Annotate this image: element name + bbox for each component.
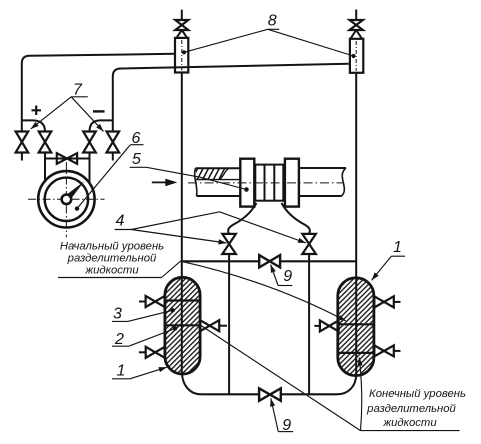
gauge U1 outer circle (differential manometer, item 6) — [38, 171, 94, 227]
label 3 leader — [128, 310, 173, 321]
label 7 leader left — [31, 97, 71, 129]
valve V3 (minus shutoff valve) — [83, 132, 96, 153]
valve 4 right (tap shutoff) — [302, 234, 316, 254]
right vessel left valve stem — [314, 325, 320, 327]
svg-text:3: 3 — [113, 306, 122, 323]
label 7 underline — [71, 96, 88, 98]
separator vessel 1 (right) body — [338, 278, 374, 376]
wire below valve 4 left down to bottom manifold — [228, 254, 230, 394]
svg-text:7: 7 — [73, 82, 83, 99]
wire plus top corner and horizontal to valve 8 left — [22, 54, 175, 64]
valve 8 right: body — [350, 39, 363, 73]
wire stem below V3 — [89, 153, 91, 159]
left vessel lower division line — [165, 324, 200, 326]
label 1 right underline — [391, 255, 405, 257]
valve 8 right: stem — [355, 10, 357, 21]
wire branch to valve V2 — [22, 120, 45, 131]
wire upper equalizing manifold — [182, 260, 356, 262]
svg-text:9: 9 — [283, 268, 292, 285]
minus sign — [93, 110, 105, 112]
left vessel right valve — [200, 320, 219, 331]
dot label 3 — [171, 308, 175, 312]
label 8 leader to right valve — [268, 29, 354, 56]
pipe wall inner line — [196, 179, 240, 181]
final level note underline — [361, 430, 460, 432]
label 4 underline — [115, 229, 132, 231]
left vessel lower-left valve — [146, 347, 165, 358]
label 4 leader to right tap valve — [131, 212, 306, 243]
label 1 right leader — [372, 256, 392, 280]
valve 8 left: body centerline — [181, 40, 183, 71]
label 9 lower underline — [278, 431, 293, 433]
orifice left flange — [240, 159, 254, 207]
plus sign — [32, 106, 42, 116]
pipe right break edge — [342, 168, 347, 196]
valve 8 left: body — [175, 38, 188, 73]
valve 4 left (tap shutoff) — [222, 234, 236, 254]
svg-text:жидкости: жидкости — [382, 417, 437, 429]
initial level note underline — [58, 277, 162, 279]
dots and arrowheads — [31, 50, 379, 407]
svg-text:Конечный уровень: Конечный уровень — [369, 388, 466, 400]
valve 8 right: body centerline — [355, 41, 357, 71]
valve 8 right: bowtie — [350, 20, 363, 30]
svg-text:9: 9 — [282, 417, 291, 434]
gauge crosshair horizontal — [28, 198, 105, 200]
label 6 leader to gauge — [77, 145, 130, 209]
arrowhead label 7 left — [31, 122, 39, 129]
valve 8 right: cone — [350, 30, 362, 39]
pipe wall band boundary — [220, 168, 229, 179]
left vessel lower-left valve stem — [139, 351, 146, 353]
wire left vessel bottom outlet curve — [182, 374, 201, 395]
label 4 leader to left tap valve — [131, 230, 226, 244]
arrowhead initial level — [338, 315, 346, 321]
arrowhead label 7 right — [96, 124, 103, 132]
label 1 left leader — [130, 367, 167, 379]
label 1 left underline — [112, 378, 130, 380]
left vessel upper division line — [165, 299, 200, 301]
right vessel upper division line — [338, 323, 374, 325]
svg-text:8: 8 — [268, 13, 277, 30]
label 9 lower leader — [271, 398, 279, 431]
gauge hub — [62, 195, 72, 205]
wire bracket right down to gauge — [89, 159, 91, 185]
dot on valve 8 right — [351, 54, 355, 58]
gauge crosshair vertical — [65, 162, 67, 237]
label 3 underline — [112, 320, 128, 322]
arrowhead label 9 lower — [270, 398, 275, 406]
orifice plate stack — [255, 165, 283, 201]
separator vessel 1 (left) body — [165, 277, 200, 374]
gauge inner circle — [45, 178, 88, 221]
arrowhead label 9 upper — [271, 265, 276, 273]
wire bracket left down to gauge — [44, 159, 46, 183]
wire right impulse line down to right vessel — [355, 73, 357, 375]
wire plus impulse vertical (left) — [21, 64, 23, 132]
arrowhead label 4 right — [298, 238, 306, 243]
pipe top edge left — [196, 167, 241, 169]
orifice plate divider 1 — [264, 165, 266, 201]
svg-text:4: 4 — [116, 213, 125, 230]
wire right orifice tap curve — [282, 203, 310, 234]
pipe left break edge — [195, 168, 197, 196]
wire bottom manifold — [201, 393, 337, 395]
flow arrow shaft — [152, 181, 166, 183]
left vessel upper-left valve stem — [139, 301, 146, 303]
arrowhead final level — [358, 358, 363, 366]
valve 9 lower (blow-down) — [259, 388, 281, 401]
wire stem below V2 — [44, 153, 46, 159]
wire stem below V4 — [112, 153, 114, 161]
wire left impulse line down to left vessel — [181, 73, 183, 374]
svg-text:разделительной: разделительной — [67, 252, 157, 264]
label 2 leader — [129, 329, 175, 347]
wire below valve 4 right down to bottom manifold — [308, 254, 310, 394]
arrowhead label 1 left — [158, 367, 166, 372]
svg-text:жидкости: жидкости — [84, 265, 139, 277]
right vessel upper-right valve — [374, 296, 394, 307]
dot orifice (label 5) — [244, 187, 249, 192]
valve V2 (plus shutoff valve) — [39, 132, 52, 153]
final level leader to right vessel division — [359, 358, 361, 431]
label 2 underline — [112, 345, 129, 347]
valve 9 upper (equalizing) — [259, 255, 280, 267]
valve 8 left: bowtie — [175, 20, 188, 30]
wire minus impulse vertical — [112, 77, 114, 132]
right vessel left valve — [320, 320, 339, 331]
svg-text:1: 1 — [117, 363, 126, 380]
final level leader to left vessel division — [201, 326, 361, 431]
valve 8 left: stem — [181, 10, 183, 20]
label 5 underline — [130, 166, 147, 168]
wire equalizer line over gauge — [45, 158, 90, 160]
label 8 underline — [268, 28, 280, 30]
right vessel lower-right valve stem — [394, 350, 401, 352]
dot on valve 8 left — [182, 50, 186, 54]
orifice plate divider 2 — [273, 165, 275, 201]
wire branch to valve V3 — [90, 120, 113, 131]
svg-text:разделительной: разделительной — [366, 403, 456, 415]
pipe centerline — [188, 182, 344, 184]
left vessel upper-left valve — [146, 296, 165, 307]
pipe bottom edge right — [299, 195, 342, 197]
wire left orifice tap curve — [228, 203, 256, 234]
svg-text:6: 6 — [132, 130, 141, 147]
valve V4 (minus vent valve) — [107, 132, 120, 153]
initial level leader to junction and right vessel — [162, 261, 347, 321]
pipe bottom edge left — [197, 195, 241, 197]
right vessel lower division line — [338, 352, 374, 354]
arrowhead label 1 right — [372, 272, 379, 280]
label 5 leader to orifice — [146, 167, 246, 189]
svg-text:2: 2 — [114, 331, 124, 348]
svg-text:Начальный уровень: Начальный уровень — [60, 240, 164, 252]
wire right vessel bottom outlet curve — [337, 375, 356, 394]
wire minus top corner and horizontal to valve 8 right — [113, 64, 349, 77]
arrowhead label 4 left — [218, 239, 226, 244]
label 9 upper leader — [271, 265, 279, 286]
label 7 leader right — [71, 97, 103, 132]
dot gauge (label 6) — [75, 206, 79, 210]
right vessel upper-right valve stem — [394, 301, 401, 303]
valve 8 left: cone — [176, 30, 187, 38]
label 8 leader to left valve — [184, 29, 268, 52]
orifice right flange — [285, 159, 299, 207]
dot label 2 — [173, 326, 177, 330]
flow arrow head — [165, 179, 177, 187]
wire stem below V1 — [21, 153, 23, 161]
svg-text:5: 5 — [132, 151, 141, 168]
right vessel lower-right valve — [374, 345, 394, 356]
label 9 upper underline — [278, 285, 292, 287]
gauge needle — [62, 181, 84, 203]
equalizer valve (bowtie) — [57, 153, 77, 164]
left vessel right valve stem — [219, 325, 227, 327]
pipe top edge right — [299, 167, 346, 169]
label 6 underline — [130, 144, 143, 146]
valve V1 (plus vent valve) — [16, 132, 29, 153]
svg-text:1: 1 — [393, 239, 402, 256]
